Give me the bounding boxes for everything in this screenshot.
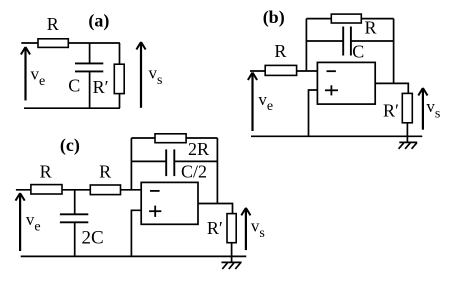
wire: feedback top branch (b): [306, 18, 393, 20]
svg-text:vs: vs: [149, 63, 163, 87]
wire: feedback middle branch left (c): [131, 160, 166, 162]
wire: capacitor 2C bottom stem (c): [74, 222, 76, 256]
wire: capacitor 2C top stem (c): [74, 190, 76, 215]
capacitor C/2 (c): [166, 149, 174, 176]
resistor R feedback (b): [331, 14, 361, 23]
svg-text:vs: vs: [426, 97, 440, 121]
svg-text:C/2: C/2: [181, 161, 207, 181]
svg-text:ve: ve: [31, 64, 46, 88]
wire: op-amp output (b): [375, 83, 408, 93]
resistor R (a): [38, 39, 68, 48]
arrow v_e (b): [248, 73, 257, 132]
arrow v_s (c): [241, 208, 250, 250]
arrow v_e (a): [21, 47, 30, 100]
capacitor 2C (c): [60, 214, 88, 222]
capacitor C (a): [75, 63, 103, 71]
op-amp U1 plus input sign (b): [325, 85, 338, 95]
svg-text:ve: ve: [258, 90, 273, 114]
wire: non-inverting input to ground bus (c): [131, 210, 141, 256]
wire: feedback left vertical (c): [130, 138, 132, 190]
wire: non-inverting input to ground bus (b): [309, 90, 318, 136]
capacitor C (b): [343, 27, 351, 56]
svg-text:vs: vs: [251, 216, 265, 240]
svg-text:(a): (a): [88, 11, 109, 32]
wire: bottom bus (b): [251, 135, 422, 137]
svg-text:R: R: [99, 162, 111, 182]
wire: feedback left vertical (b): [305, 19, 307, 71]
wire: circuit (c) input wire: [16, 189, 141, 191]
svg-text:R: R: [40, 161, 52, 181]
resistor R' (a): [114, 64, 124, 93]
svg-text:R: R: [274, 41, 286, 61]
svg-text:R: R: [47, 14, 59, 34]
wire: circuit (a) top input wire: [21, 42, 120, 44]
resistor R input (b): [265, 65, 296, 75]
svg-text:2R: 2R: [188, 139, 209, 159]
wire: R' bottom stem (a): [119, 94, 121, 109]
svg-text:C: C: [68, 76, 80, 96]
svg-text:(b): (b): [263, 7, 285, 28]
wire: capacitor C bottom stem (a): [89, 71, 91, 108]
wire: feedback right vertical (c): [216, 138, 218, 204]
wire: bottom bus (c): [21, 255, 247, 257]
svg-text:R′: R′: [383, 101, 399, 121]
arrow v_e (c): [16, 193, 25, 251]
op-amp U2 plus input sign (c): [149, 206, 161, 217]
resistor R second (c): [90, 185, 120, 195]
ground (c): [222, 262, 242, 269]
wire: feedback top branch (c): [131, 137, 217, 139]
wire: circuit (b) input wire: [250, 70, 317, 72]
svg-text:R′: R′: [93, 77, 109, 97]
svg-text:(c): (c): [60, 135, 80, 156]
svg-text:R′: R′: [207, 218, 223, 238]
wire: feedback middle branch right (c): [174, 160, 217, 162]
wire: R' bottom stem (b): [406, 123, 408, 143]
svg-text:C: C: [352, 41, 364, 61]
svg-text:ve: ve: [26, 210, 41, 234]
arrow v_s (b): [418, 88, 427, 130]
resistor R' (b): [402, 93, 412, 122]
op-amp U1 (b): [317, 62, 375, 104]
wire: op-amp output (c): [198, 204, 233, 214]
wire: R' top stem (a): [119, 43, 121, 64]
wire: feedback middle branch left (b): [306, 40, 343, 42]
wire: feedback middle branch right (b): [351, 40, 394, 42]
svg-text:2C: 2C: [82, 227, 104, 248]
wire: feedback right vertical (b): [393, 19, 395, 84]
op-amp U1 minus input sign (b): [327, 70, 336, 72]
op-amp U2 (c): [141, 182, 198, 224]
wire: R' bottom stem (c): [231, 243, 233, 263]
resistor 2R (c): [155, 134, 186, 143]
resistor R first (c): [31, 185, 62, 194]
svg-text:R: R: [364, 17, 376, 37]
arrow v_s (a): [136, 42, 145, 108]
wire: bottom return wire (a): [24, 107, 120, 109]
ground (b): [399, 142, 418, 148]
op-amp U2 minus input sign (c): [150, 190, 160, 192]
wire: capacitor C top stem (a): [89, 43, 91, 63]
resistor R' (c): [227, 214, 236, 243]
